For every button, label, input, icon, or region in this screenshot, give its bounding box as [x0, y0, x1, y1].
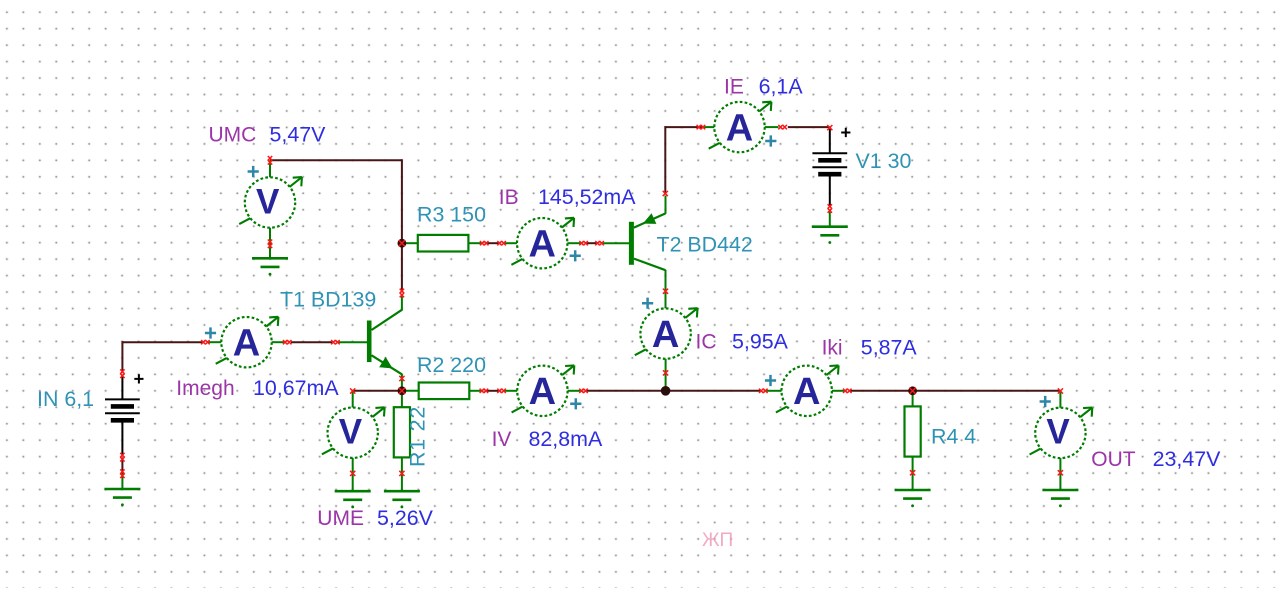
svg-text:IC: IC	[696, 331, 717, 354]
svg-text:V: V	[256, 182, 280, 221]
svg-text:Iki: Iki	[822, 337, 843, 360]
svg-text:5,95A: 5,95A	[732, 330, 789, 354]
svg-text:Imegh: Imegh	[176, 377, 234, 400]
svg-text:A: A	[233, 322, 260, 364]
svg-text:V: V	[339, 413, 363, 452]
svg-text:R1 22: R1 22	[406, 406, 430, 467]
svg-text:UME: UME	[317, 507, 364, 530]
svg-text:T2 BD442: T2 BD442	[657, 233, 753, 257]
svg-text:V: V	[1046, 413, 1070, 452]
svg-text:5,87A: 5,87A	[861, 336, 918, 360]
svg-text:ЖП: ЖП	[702, 530, 733, 551]
svg-text:5,26V: 5,26V	[377, 506, 434, 530]
svg-text:23,47V: 23,47V	[1153, 447, 1222, 471]
svg-text:IE: IE	[724, 76, 744, 99]
svg-text:10,67mA: 10,67mA	[253, 376, 339, 400]
svg-text:A: A	[529, 371, 556, 413]
svg-text:UMC: UMC	[209, 124, 257, 147]
svg-text:145,52mA: 145,52mA	[538, 185, 636, 209]
svg-text:82,8mA: 82,8mA	[529, 427, 603, 451]
svg-text:IV: IV	[492, 428, 512, 451]
svg-text:T1 BD139: T1 BD139	[280, 288, 376, 312]
svg-text:R4 4: R4 4	[931, 425, 976, 449]
svg-text:IB: IB	[499, 186, 519, 209]
svg-text:V1 30: V1 30	[856, 149, 912, 173]
svg-text:5,47V: 5,47V	[270, 123, 327, 147]
svg-text:OUT: OUT	[1091, 448, 1136, 471]
svg-text:A: A	[726, 107, 753, 149]
svg-text:R3 150: R3 150	[417, 203, 486, 227]
svg-text:A: A	[652, 314, 679, 356]
svg-text:R2 220: R2 220	[417, 353, 486, 377]
svg-text:A: A	[528, 223, 555, 265]
svg-text:6,1A: 6,1A	[759, 75, 804, 99]
svg-text:IN 6,1: IN 6,1	[37, 387, 94, 411]
svg-text:A: A	[793, 371, 820, 413]
